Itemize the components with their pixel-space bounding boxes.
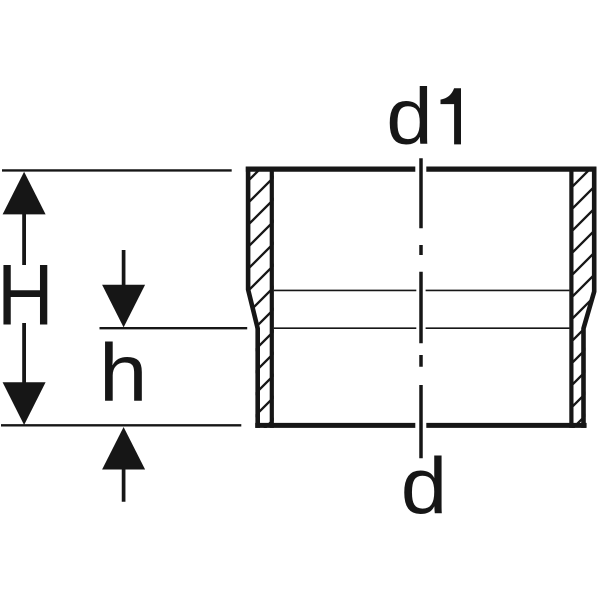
svg-text:H: H — [0, 247, 54, 343]
svg-text:d: d — [401, 442, 447, 531]
svg-text:d: d — [386, 73, 432, 162]
svg-text:h: h — [99, 326, 148, 418]
